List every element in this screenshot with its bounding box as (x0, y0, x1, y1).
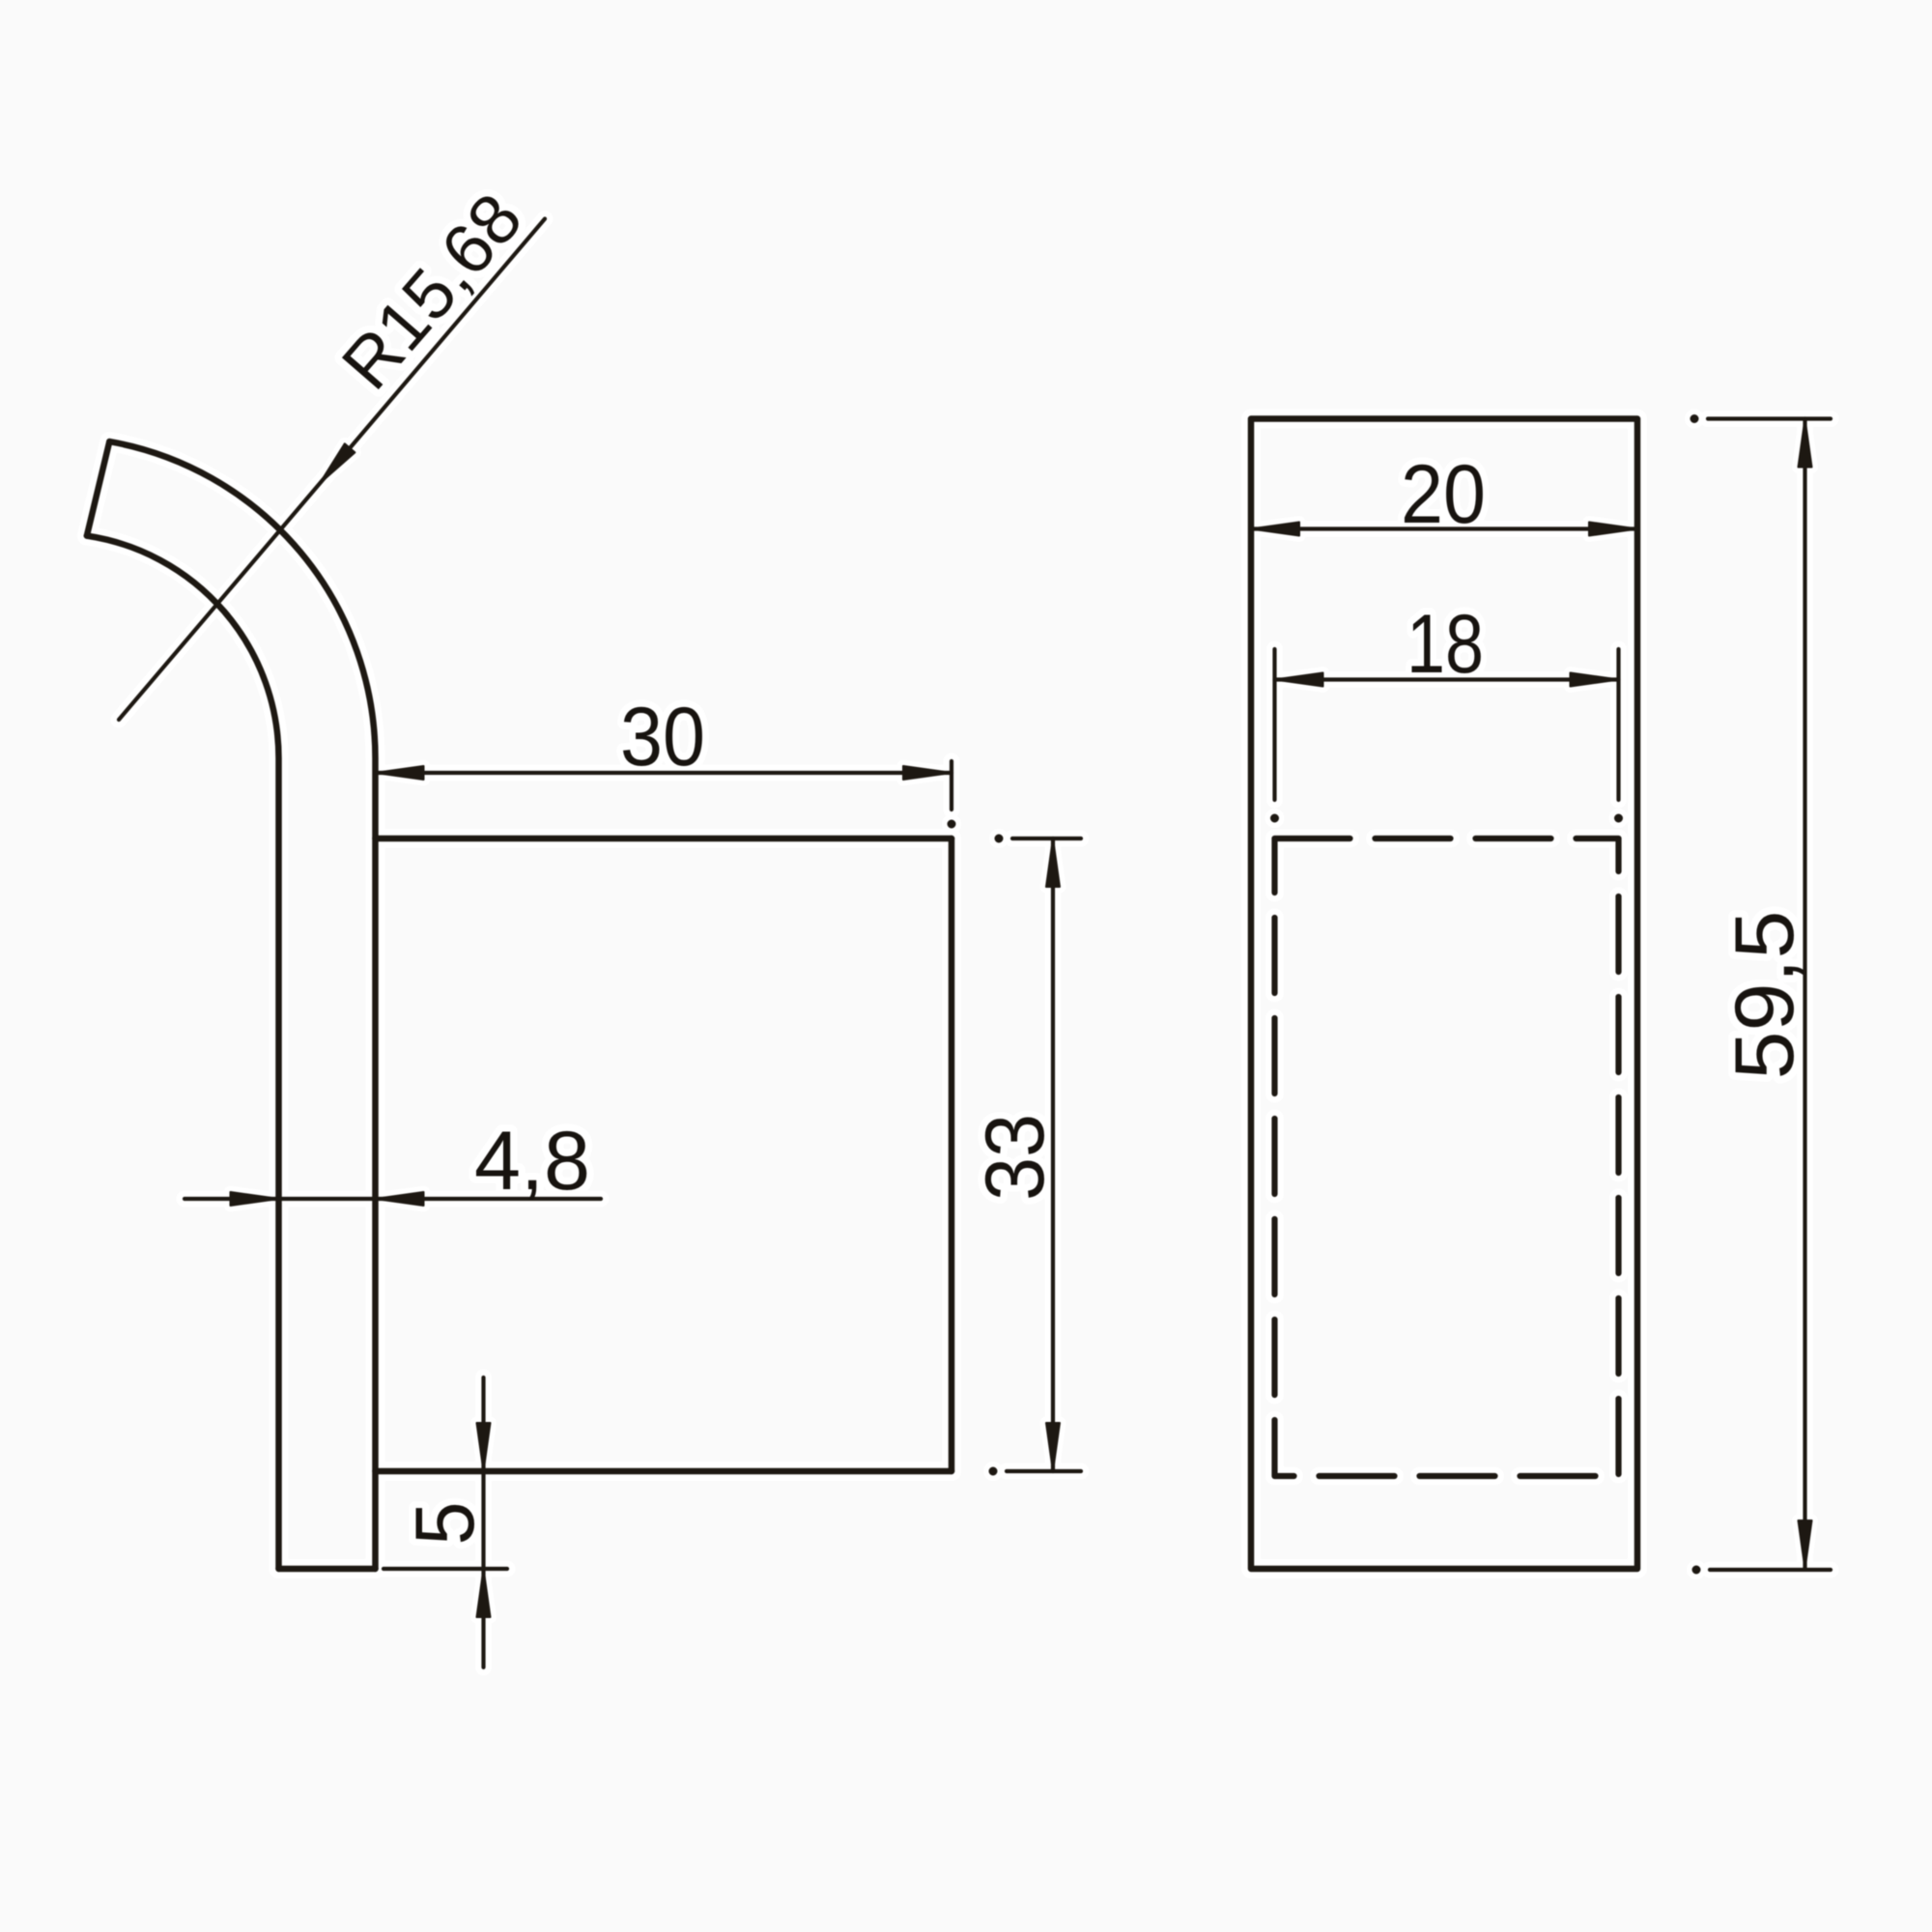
svg-text:33: 33 (969, 1114, 1062, 1201)
dimension 59,5 top extension dot (1691, 415, 1698, 422)
left view plate top edge (376, 836, 952, 842)
dimension 5 extension line (384, 1567, 507, 1571)
dimension 18 right arrowhead (1571, 673, 1619, 687)
dimension 33 bottom extension line (1007, 1469, 1081, 1473)
dimension 33 top extension line (1012, 837, 1081, 840)
dimension 30 right arrowhead (903, 766, 952, 780)
dimension 59,5 bottom arrowhead (1799, 1520, 1812, 1569)
svg-text:59,5: 59,5 (1719, 911, 1811, 1080)
dimension 5 lower arrowhead (477, 1569, 491, 1617)
dimension 20 line (1251, 526, 1637, 530)
dimension 5 upper arrowhead (477, 1423, 491, 1471)
dimension 18 left extension line (1272, 649, 1276, 800)
dimension 4,8 line (185, 1197, 601, 1201)
left view hook outer arc (109, 441, 375, 1569)
left view hook inner arc (87, 536, 279, 1569)
dimension 30 extension dot (949, 821, 955, 828)
svg-text:20: 20 (1401, 448, 1486, 541)
dimension 20 right arrowhead (1589, 523, 1637, 536)
dimension 18 right extension dot (1615, 815, 1622, 822)
svg-text:5: 5 (399, 1502, 492, 1546)
dimension 59,5 top extension line (1708, 416, 1831, 420)
dimension 18 line (1275, 677, 1619, 681)
front view outline (1251, 419, 1637, 1570)
dimension 20 left arrowhead (1251, 523, 1299, 536)
dimension 33 top extension dot (996, 836, 1003, 842)
left view plate right edge (949, 838, 955, 1471)
dimension 18 left arrowhead (1275, 673, 1323, 687)
dimension 30 line (376, 771, 952, 775)
dimension 30 right extension line (950, 761, 953, 810)
dimension 59,5 line (1803, 419, 1806, 1570)
dimension 18 right extension line (1616, 649, 1620, 800)
dimension 33 top arrowhead (1046, 838, 1060, 887)
dimension 33 bottom arrowhead (1046, 1423, 1060, 1471)
radius leader line R15,68 (119, 219, 545, 721)
svg-text:18: 18 (1406, 598, 1484, 691)
dimension 33 line (1051, 838, 1055, 1471)
dimension 59,5 top arrowhead (1799, 419, 1812, 468)
dimension 30 left arrowhead (376, 766, 424, 780)
left view plate bottom edge (376, 1468, 952, 1475)
dimension 18 left extension dot (1271, 815, 1278, 822)
left view strip bottom edge (279, 1566, 376, 1573)
dimension 4,8 left arrowhead (231, 1192, 279, 1206)
dimension 33 bottom extension dot (990, 1468, 997, 1475)
left view hook end cap (87, 441, 109, 535)
radius leader arrowhead (320, 443, 355, 483)
svg-text:R15,68: R15,68 (327, 180, 537, 405)
front view hidden slot (dashed) (1275, 838, 1619, 1476)
dimension 5 line (481, 1378, 485, 1667)
dimension 59,5 bottom extension dot (1693, 1567, 1700, 1574)
dimension 59,5 bottom extension line (1710, 1568, 1831, 1572)
svg-text:4,8: 4,8 (474, 1115, 590, 1207)
dimension 4,8 right arrowhead (376, 1192, 424, 1206)
svg-text:30: 30 (620, 691, 705, 783)
